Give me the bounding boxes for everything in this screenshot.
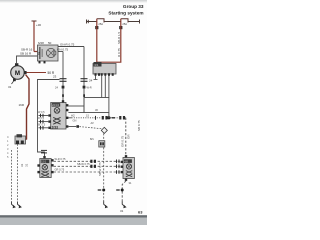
svg-text:6/28: 6/28	[38, 41, 44, 45]
wire GN to x63	[58, 51, 63, 53]
ground G1	[12, 202, 15, 207]
inline component 8/1 on ground wire	[90, 137, 105, 147]
pin connectors at relay3 left	[117, 160, 120, 174]
inline connector C84	[81, 79, 88, 82]
wire ign pin 50 down	[101, 76, 103, 98]
splice blob on x63 wire	[62, 86, 65, 89]
fuse F1	[97, 19, 104, 23]
svg-text:2: 2	[38, 52, 40, 56]
tick label right of node	[112, 117, 115, 119]
wire red service feed top left	[33, 22, 35, 52]
wire relay3 bottom to ground	[122, 181, 126, 202]
svg-text:Group 33: Group 33	[123, 4, 144, 9]
svg-text:31: 31	[120, 209, 124, 213]
wire red battery cable down	[25, 75, 29, 140]
connector box 17/9	[15, 134, 26, 144]
svg-text:SB-W 0.75: SB-W 0.75	[98, 162, 102, 176]
wire down x84	[83, 47, 85, 113]
wire ign pin 30 down	[108, 76, 110, 98]
svg-text:GR 0.75: GR 0.75	[55, 168, 65, 172]
relay 2/33	[48, 100, 68, 129]
svg-text:W-R 0.75: W-R 0.75	[55, 157, 66, 161]
connector row1	[90, 160, 92, 163]
svg-text:W 0.5: W 0.5	[38, 111, 45, 114]
ground G4	[122, 202, 125, 207]
starter solenoid box 6/28	[38, 41, 59, 63]
svg-text:31: 31	[8, 85, 12, 89]
wire rectangle loop	[84, 98, 109, 113]
svg-text:R 0.75: R 0.75	[117, 48, 121, 57]
svg-text:31: 31	[25, 163, 29, 167]
node 30 junction dot	[107, 116, 110, 119]
wire black from junction to relay2	[38, 80, 60, 157]
wire dashed ground left1	[11, 150, 13, 202]
wire dashed row1 between relays	[54, 160, 121, 162]
wire red into solenoid	[34, 51, 38, 53]
connector on y118 left	[102, 116, 104, 120]
motor ground tick	[12, 81, 15, 85]
connector on y118 right	[119, 116, 121, 120]
svg-text:16R: 16R	[19, 103, 25, 107]
svg-text:SB 16 R: SB 16 R	[20, 52, 32, 56]
page background	[0, 0, 147, 225]
splice blob on x84 wire	[83, 86, 86, 89]
pin label column	[7, 135, 9, 159]
svg-text:2/33: 2/33	[52, 125, 59, 129]
svg-text:W-R: W-R	[87, 86, 92, 90]
junction dot under F2	[119, 26, 122, 29]
svg-text:24: 24	[89, 79, 93, 83]
svg-text:25A: 25A	[122, 22, 127, 26]
svg-text:GN: GN	[73, 118, 77, 122]
svg-text:3/1: 3/1	[94, 63, 99, 67]
wire dashed down from diamond to ground	[103, 133, 105, 202]
svg-text:50: 50	[48, 41, 52, 45]
wire loop stub to node	[108, 113, 110, 118]
svg-text:SB-R 1.5: SB-R 1.5	[117, 31, 121, 44]
svg-text:50 R: 50 R	[48, 71, 55, 75]
stub ign pin with tick	[95, 76, 97, 80]
svg-text:AV: AV	[91, 121, 95, 125]
svg-text:Starting system: Starting system	[108, 11, 143, 16]
wire row y118	[68, 117, 125, 119]
relay left stub row 1	[38, 111, 48, 117]
wire dash-dot down to relay3	[125, 118, 127, 157]
svg-text:8/1: 8/1	[90, 137, 94, 141]
svg-text:SB 0.75: SB 0.75	[137, 120, 141, 131]
wire row y126.5 to terminal	[68, 126, 76, 128]
connector row2	[90, 165, 92, 168]
inline connector on relay2 feed	[41, 150, 47, 153]
wire dashed row2 between relays	[54, 165, 121, 167]
wire GN-R to x84	[58, 46, 84, 48]
wire down x63 to relay top	[62, 52, 64, 103]
feed wire 30	[87, 20, 140, 24]
tick on y118 wire	[95, 116, 97, 120]
wire from motor top terminal	[17, 56, 38, 63]
ground G2	[18, 202, 21, 207]
wire dashed ground left2	[17, 144, 19, 202]
svg-text:A2: A2	[71, 113, 75, 117]
wire red from F1 down to ignition switch	[96, 19, 98, 63]
inline connector C63	[60, 79, 67, 82]
svg-text:25A: 25A	[98, 22, 103, 26]
svg-text:C: C	[7, 135, 9, 139]
ignition switch 3/1	[93, 62, 116, 76]
svg-text:15/1: 15/1	[41, 160, 47, 164]
svg-text:+30: +30	[36, 23, 41, 27]
relay left stub row 2	[38, 117, 48, 123]
relay 4/8	[121, 155, 135, 181]
wire dashed row3 between relays	[54, 171, 121, 173]
svg-text:R 0.5: R 0.5	[38, 117, 45, 120]
tick label 31	[98, 189, 102, 191]
svg-text:22/34: 22/34	[52, 103, 59, 107]
svg-text:31: 31	[20, 163, 24, 167]
tick label 31	[116, 189, 120, 191]
terminal diamond 31	[101, 127, 107, 133]
wire relay pin to loop lower	[68, 112, 84, 114]
svg-text:GN 0.75: GN 0.75	[57, 47, 69, 51]
ground G3	[104, 202, 107, 207]
svg-text:BL 0.5: BL 0.5	[38, 123, 46, 126]
svg-text:SB-W 0.75: SB-W 0.75	[77, 162, 90, 166]
svg-text:23: 23	[53, 75, 57, 79]
junction dot on ground wire	[102, 189, 105, 192]
wire ign pin 15 down	[104, 76, 106, 98]
relay left stub row 3	[38, 123, 48, 129]
fuse F2	[121, 19, 128, 23]
svg-text:GN-R 0.75: GN-R 0.75	[60, 43, 75, 47]
svg-text:63: 63	[138, 210, 143, 215]
starter motor M	[11, 63, 27, 81]
relay 2/25 bottom left	[37, 156, 53, 178]
junction dot under F1	[95, 26, 98, 29]
wire relay pin to loop upper	[68, 105, 84, 107]
svg-text:M: M	[15, 70, 20, 77]
connector blob on y126.5	[76, 125, 79, 128]
junction dot relay3 ground	[121, 189, 124, 192]
wire red 50 from solenoid	[27, 72, 47, 74]
svg-text:4/8: 4/8	[124, 159, 128, 163]
wire red from F2 down then left along ignition switch top	[97, 19, 121, 63]
svg-text:GR 0.75: GR 0.75	[121, 135, 125, 147]
